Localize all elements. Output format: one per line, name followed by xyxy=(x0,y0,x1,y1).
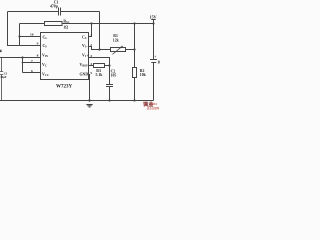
capacitor C2 plates xyxy=(106,85,113,87)
svg-text:12k: 12k xyxy=(113,38,120,42)
wire pin5 to ground xyxy=(89,75,90,101)
svg-text:R1: R1 xyxy=(113,34,118,38)
input terminal mark xyxy=(0,50,2,51)
svg-text:CL: CL xyxy=(43,36,48,41)
wire pin7 stub xyxy=(23,62,41,64)
node dot C2 ground xyxy=(108,99,110,101)
svg-text:VREF: VREF xyxy=(80,63,89,68)
node dot input xyxy=(21,56,23,58)
capacitor C1 plates xyxy=(59,8,61,16)
svg-text:10: 10 xyxy=(30,33,34,37)
node dot R2 rail xyxy=(133,22,135,24)
svg-text:VC: VC xyxy=(42,63,47,68)
svg-text:481: 481 xyxy=(152,102,157,106)
wire R2 vertical top xyxy=(134,24,136,68)
svg-text:V1-: V1- xyxy=(82,44,88,49)
wire vertical C1 right to node xyxy=(99,12,101,50)
svg-text:470p: 470p xyxy=(50,4,58,8)
node dot NI xyxy=(108,64,110,66)
potentiometer R1 arrow xyxy=(113,46,123,54)
wire R2 to ground rail xyxy=(134,78,136,101)
wire pin1 to rail xyxy=(89,24,92,37)
svg-text:10μF: 10μF xyxy=(0,75,7,79)
node dot terminal xyxy=(152,22,154,24)
wire input branch vertical xyxy=(22,58,24,73)
svg-text:W723Y: W723Y xyxy=(56,84,73,89)
wire pot to R2 vertical xyxy=(126,49,135,51)
svg-text:105: 105 xyxy=(111,73,117,77)
15V terminal xyxy=(151,20,155,24)
svg-text:8: 8 xyxy=(37,54,39,58)
op-amp U1 W723Y box xyxy=(41,33,89,80)
resistor R3 xyxy=(94,64,105,68)
wire R3 to node xyxy=(105,65,110,67)
capacitor C3 plates xyxy=(0,72,3,75)
potentiometer R1 xyxy=(111,48,126,52)
svg-text:RSC: RSC xyxy=(63,19,69,24)
wire top compensation line xyxy=(8,11,59,13)
svg-text:6: 6 xyxy=(31,69,33,73)
wire pot line left xyxy=(100,49,111,51)
svg-text:15V: 15V xyxy=(150,14,157,19)
ground rail xyxy=(0,100,154,102)
svg-text:4: 4 xyxy=(90,62,92,66)
svg-text:7: 7 xyxy=(31,59,33,63)
ground symbol xyxy=(86,105,92,108)
svg-text:+: + xyxy=(154,55,156,59)
node dot pin7 xyxy=(22,62,24,64)
svg-text:3: 3 xyxy=(90,54,92,58)
node dot pot right xyxy=(133,48,135,50)
wire rail corner to pin10 xyxy=(19,24,21,46)
wire pin10 stub xyxy=(20,36,41,38)
wire pin3 to node xyxy=(89,58,110,66)
svg-text:5: 5 xyxy=(90,71,92,75)
svg-text:5.1k: 5.1k xyxy=(96,73,104,77)
svg-text:CF: CF xyxy=(43,44,48,49)
wire pin2 to node xyxy=(89,47,100,50)
resistor Rsc xyxy=(45,22,63,26)
wire C2 to ground rail xyxy=(109,87,111,101)
node dot pin1 rail xyxy=(90,22,92,24)
svg-text:9: 9 xyxy=(37,42,39,46)
resistor R2 xyxy=(133,68,137,78)
svg-text:1Ω: 1Ω xyxy=(63,26,68,30)
node dot ground xyxy=(88,99,90,101)
node dot INV xyxy=(98,48,100,50)
svg-text:V1+: V1+ xyxy=(82,54,89,59)
wire C4 to ground rail xyxy=(153,63,155,101)
svg-text:CS: CS xyxy=(82,36,87,41)
capacitor C3 leads xyxy=(1,58,3,101)
svg-text:10k: 10k xyxy=(140,73,147,77)
node dot pin10 xyxy=(18,35,20,37)
wire left vertical C1 to pin9 xyxy=(8,12,41,46)
svg-text:1: 1 xyxy=(90,33,92,37)
wire input line pin8 xyxy=(0,57,41,59)
capacitor C4 plates xyxy=(150,60,157,63)
node dot R2 ground xyxy=(133,99,135,101)
wire pin4 stub xyxy=(89,65,94,67)
wire top line right of C1 xyxy=(61,11,100,13)
svg-text:10: 10 xyxy=(157,60,160,64)
svg-text:VCC: VCC xyxy=(42,73,49,78)
svg-text:VIN: VIN xyxy=(42,54,48,59)
svg-text:真金白银网: 真金白银网 xyxy=(147,106,160,110)
svg-text:2: 2 xyxy=(90,43,92,47)
wire C4 vertical top xyxy=(153,24,155,60)
svg-text:GND: GND xyxy=(80,73,89,77)
wire pin6 stub xyxy=(23,72,41,74)
wire main V+ rail xyxy=(20,23,154,25)
wire node to C2 xyxy=(109,66,111,85)
